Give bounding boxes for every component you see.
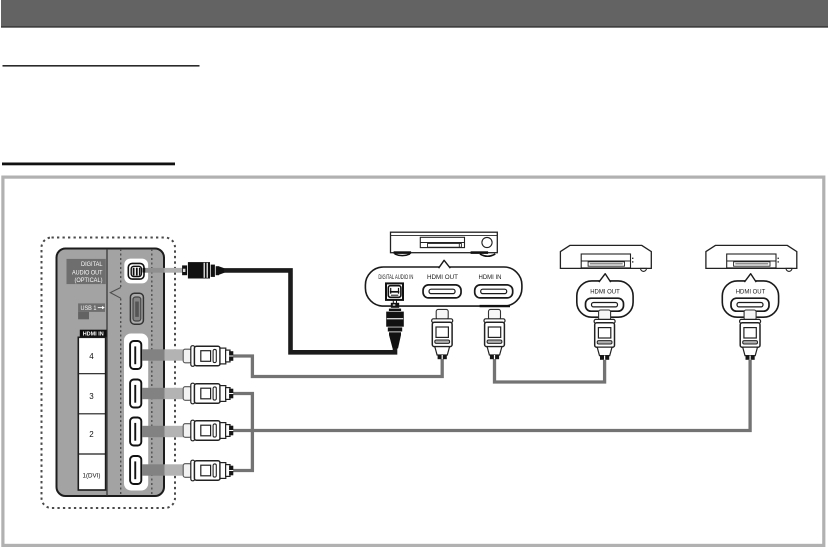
- cable: TV HDMI4 to receiver HDMI OUT: [232, 356, 442, 377]
- svg-text:1(DVI): 1(DVI): [83, 473, 101, 480]
- device 2 group: [706, 245, 797, 359]
- optical port white square: [124, 259, 148, 284]
- panel divider line: [106, 249, 108, 496]
- HDMI port 3 (TV): [130, 380, 141, 408]
- HDMI port 1 (TV): [130, 456, 141, 484]
- device 1 dots: [632, 258, 633, 259]
- HDMI shaft 4: [142, 349, 165, 360]
- label: HDMI IN header: [80, 330, 107, 338]
- svg-text:4: 4: [89, 352, 94, 361]
- svg-text:HDMI OUT: HDMI OUT: [590, 288, 620, 295]
- label: USB 1: [78, 303, 105, 319]
- device 1 foot: [641, 268, 647, 271]
- HDMI IN numbers column: [78, 337, 105, 490]
- HDMI IN plug (receiver): [484, 309, 505, 359]
- HDMI plug 1 (TV side): [183, 460, 233, 481]
- TV side panel: [57, 249, 165, 497]
- TV dashed outline: [42, 238, 176, 509]
- HDMI OUT plug (receiver): [432, 309, 453, 359]
- HDMI shaft 2: [142, 426, 165, 437]
- receiver balloon: [365, 267, 522, 306]
- HDMI OUT port (device 1): [586, 298, 624, 311]
- HDMI ports white strip: [124, 334, 148, 491]
- svg-text:DIGITAL: DIGITAL: [81, 261, 103, 268]
- svg-text:3: 3: [89, 392, 94, 401]
- HDMI plug 4 (TV side): [183, 346, 233, 367]
- break notch: [110, 288, 120, 299]
- optical port (receiver): [386, 283, 403, 300]
- label: DIGITAL AUDIO OUT (OPTICAL): [67, 259, 106, 284]
- device 1 group: [560, 245, 651, 359]
- heading underline 2: [2, 163, 175, 166]
- HDMI plug 2 (TV side): [183, 420, 233, 441]
- cable: TV HDMI2 to device2 HDMI OUT: [232, 360, 750, 431]
- HDMI IN port (receiver): [475, 285, 513, 298]
- panel dashed line B: [151, 249, 153, 496]
- svg-text:AUDIO OUT: AUDIO OUT: [72, 269, 103, 276]
- optical plug (receiver, black): [386, 300, 404, 349]
- optical plug (TV side): [182, 262, 225, 278]
- heading underline 1: [3, 65, 200, 67]
- device 1 disc tray: [581, 254, 630, 268]
- device 1 body: [560, 245, 651, 268]
- device 1 balloon pointer: [599, 274, 611, 282]
- cable: receiver HDMI IN to device1 HDMI OUT: [495, 359, 605, 382]
- header bar: [1, 0, 828, 26]
- HDMI OUT plug (device 1): [594, 310, 615, 360]
- USB port: [130, 293, 143, 324]
- HDMI shaft 3: [142, 388, 165, 399]
- device 1 balloon: [577, 281, 633, 317]
- svg-text:HDMI IN: HDMI IN: [479, 274, 502, 281]
- HDMI OUT port (receiver): [423, 285, 461, 298]
- AV receiver body: [391, 232, 498, 256]
- svg-text:(OPTICAL): (OPTICAL): [75, 277, 103, 284]
- HDMI port 2 (TV): [130, 418, 141, 446]
- svg-text:2: 2: [89, 430, 94, 439]
- figure frame box: [3, 177, 824, 545]
- panel dashed line A (with break notch): [120, 249, 122, 287]
- svg-text:HDMI OUT: HDMI OUT: [427, 274, 458, 281]
- HDMI shaft 1: [142, 464, 165, 475]
- svg-text:USB 1: USB 1: [81, 305, 97, 312]
- optical port (TV): [128, 263, 145, 279]
- cable: TV optical to receiver DIGITAL AUDIO IN: [224, 270, 395, 352]
- receiver balloon pointer: [439, 260, 451, 268]
- cable: TV HDMI3 to TV HDMI1: [232, 394, 252, 471]
- HDMI port 4 (TV): [130, 341, 141, 369]
- balloon bottom thick mark: [480, 305, 510, 307]
- optical cable shaft: [143, 268, 165, 273]
- HDMI plug 3 (TV side): [183, 383, 233, 404]
- svg-text:DIGITAL AUDIO IN: DIGITAL AUDIO IN: [378, 274, 413, 281]
